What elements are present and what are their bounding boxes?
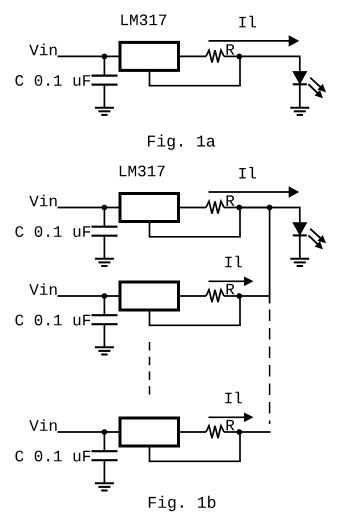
wire: junction down to C1 <box>103 56 105 75</box>
label Il current (Fig 1b middle) <box>225 256 242 268</box>
label Vin (Fig 1b bottom) <box>29 419 56 431</box>
wire: junction down to C4 <box>103 432 105 451</box>
wire: U3 ADJ feedback loop <box>150 296 241 325</box>
wire: output node to D2 anode <box>239 208 299 223</box>
label: C3 value 0.1 uF <box>15 315 90 326</box>
regulator U2 (LM317) <box>120 194 179 222</box>
capacitor C3 0.1 uF <box>92 315 118 324</box>
label LM317 for U1 <box>121 14 166 25</box>
label LM317 for U2 <box>120 166 165 177</box>
wire: output node to bus <box>239 295 269 297</box>
regulator U4 (LM317) <box>120 418 179 446</box>
current arrow Il (Fig 1b top) <box>209 186 300 197</box>
node: R1/ADJ junction (Fig 1a) <box>236 54 242 60</box>
wire: U1 output to R1 <box>180 55 206 57</box>
light arrow 1 from D2 <box>310 229 326 244</box>
label Il current (Fig 1b bottom) <box>225 392 242 404</box>
label Il current (Fig 1b top) <box>239 167 256 179</box>
wire: C2 to ground <box>103 236 105 259</box>
label Vin (Fig 1b top) <box>29 195 56 207</box>
wire: U3 output to R3 <box>180 295 206 297</box>
ground below C3 <box>95 347 114 354</box>
caption Fig. 1b <box>149 496 216 511</box>
wire: circuit1 node to LED bus (fig1b) <box>239 207 269 209</box>
wire: D1 cathode to ground <box>299 84 301 107</box>
resistor R2 <box>206 201 224 213</box>
resistor R4 <box>206 426 224 438</box>
wire: U4 output to R4 <box>180 431 206 433</box>
LED D2 <box>293 223 307 236</box>
ground below D2 <box>290 259 309 266</box>
light arrow 1 from D1 <box>310 78 326 93</box>
wire: Vin to U1 input pin <box>58 55 119 57</box>
label R for R3 <box>227 284 235 295</box>
current arrow Il (Fig 1a) <box>209 35 300 46</box>
wire: junction down to C2 <box>103 208 105 227</box>
wire: R2 to output node <box>224 207 239 209</box>
node: R2/ADJ junction (Fig 1b top) <box>236 205 242 211</box>
ground below C2 <box>95 259 114 266</box>
light arrow 2 from D1 <box>308 84 323 98</box>
regulator U3 (LM317) <box>120 282 179 310</box>
label R for R4 <box>227 420 235 431</box>
wire: R4 to output node <box>224 431 239 433</box>
wire (dashed): bus continuation to bottom circuit <box>269 310 271 425</box>
label: C1 value 0.1 uF <box>15 75 90 86</box>
capacitor C1 0.1 uF <box>92 76 118 85</box>
label Vin (Fig 1b middle) <box>29 283 56 295</box>
current arrow Il (Fig 1b middle) <box>209 277 254 287</box>
wire: D2 cathode to ground <box>299 235 301 258</box>
wire: output node toward bus (continues as dashed above) <box>239 431 270 433</box>
resistor R1 <box>206 50 224 62</box>
ground below C1 <box>95 108 114 115</box>
wire: R3 to output node <box>224 295 239 297</box>
caption Fig. 1a <box>148 135 215 150</box>
label Vin (Fig 1a) <box>29 44 56 56</box>
wire: Vin to U4 input pin <box>58 431 119 433</box>
capacitor C2 0.1 uF <box>92 227 118 236</box>
label R for R2 <box>227 195 235 206</box>
wire: C3 to ground <box>103 324 105 347</box>
ground below D1 <box>290 108 309 115</box>
wire: U2 ADJ feedback loop <box>150 208 241 237</box>
light arrow 2 from D2 <box>308 235 323 249</box>
label: C2 value 0.1 uF <box>15 226 90 237</box>
wire: U1 ADJ feedback loop <box>150 56 241 85</box>
wire: output node to D1 anode <box>239 56 299 71</box>
node: Vin/C1 junction (Fig 1a) <box>102 54 108 60</box>
wire: Vin to U3 input pin <box>58 295 119 297</box>
ground below C4 <box>95 483 114 490</box>
node: Vin/C2 junction (Fig 1b top) <box>102 205 108 211</box>
node: Vin/C3 junction (Fig 1b middle) <box>102 293 108 299</box>
regulator U1 (LM317) <box>120 42 179 70</box>
wire: bus from circuit1 node down to circuit2 output <box>269 208 271 304</box>
LED D1 <box>293 72 307 85</box>
wire: junction down to C3 <box>103 296 105 315</box>
wire: U4 ADJ feedback loop <box>150 432 241 461</box>
wire: Vin to U2 input pin <box>58 207 119 209</box>
wire: R1 to output node <box>224 55 239 57</box>
wire: U2 output to R2 <box>180 207 206 209</box>
node: R3/ADJ junction (Fig 1b middle) <box>236 293 242 299</box>
resistor R3 <box>206 290 224 302</box>
label R for R1 <box>227 44 235 55</box>
label: C4 value 0.1 uF <box>15 451 90 462</box>
wire (dashed): repeated-stage indication below middle circuit <box>149 342 151 395</box>
current arrow Il (Fig 1b bottom) <box>209 413 254 423</box>
node: R4/ADJ junction (Fig 1b bottom) <box>236 429 242 435</box>
capacitor C4 0.1 uF <box>92 451 118 460</box>
wire: C4 to ground <box>103 460 105 483</box>
node: fig1b shared cathode-bus junction <box>267 205 273 211</box>
label Il current (Fig 1a) <box>239 16 256 28</box>
wire: C1 to ground <box>103 85 105 108</box>
node: Vin/C4 junction (Fig 1b bottom) <box>102 429 108 435</box>
